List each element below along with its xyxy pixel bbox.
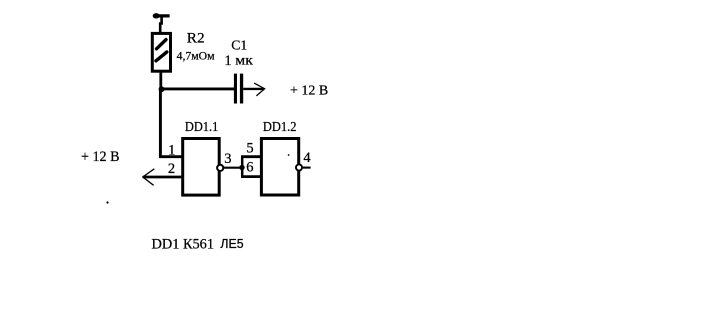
wire into pin 1 of DD1.1 xyxy=(159,155,183,158)
stray dot left xyxy=(106,201,108,203)
arrow head to +12V (left) xyxy=(143,169,155,186)
svg-text:3: 3 xyxy=(224,151,231,167)
svg-text:6: 6 xyxy=(246,159,253,175)
svg-text:C1: C1 xyxy=(231,39,247,54)
wire C1 to +12V (top) xyxy=(243,88,263,90)
svg-text:+ 12 В: + 12 В xyxy=(290,83,328,98)
svg-text:мк: мк xyxy=(235,53,253,68)
svg-text:ЛЕ5: ЛЕ5 xyxy=(220,236,243,251)
wire pin 4 output xyxy=(303,167,311,169)
wire into pin 5 of DD1.2 xyxy=(241,155,262,158)
gate DD1.1 body xyxy=(183,139,220,196)
wire sensor plate to R2 xyxy=(160,17,161,33)
svg-text:4: 4 xyxy=(303,150,311,166)
sensor touch plate E1 xyxy=(153,13,170,18)
svg-text:DD1 К561: DD1 К561 xyxy=(152,236,215,252)
svg-text:4,7мОм: 4,7мОм xyxy=(177,49,216,63)
inversion circle pin 3 of DD1.1 xyxy=(217,165,223,171)
svg-text:+ 12 В: + 12 В xyxy=(81,148,120,165)
gate DD1.2 body xyxy=(261,139,298,196)
capacitor C1 plates xyxy=(234,74,243,104)
wire into pin 6 of DD1.2 xyxy=(241,175,262,178)
wire pin 2 of DD1.1 xyxy=(143,176,183,179)
junction dot between gates xyxy=(239,165,244,170)
wire node A to capacitor C1 xyxy=(161,87,234,90)
label 1 мк xyxy=(224,53,253,69)
svg-text:5: 5 xyxy=(246,141,253,157)
svg-text:1: 1 xyxy=(168,143,175,159)
wire node A down to pin 1 xyxy=(159,89,162,158)
svg-text:2: 2 xyxy=(168,161,175,177)
svg-text:DD1.2: DD1.2 xyxy=(263,120,297,135)
node A junction dot xyxy=(159,86,165,92)
svg-text:1: 1 xyxy=(224,53,232,69)
arrow head to +12V (top) xyxy=(254,83,265,96)
stray dot in DD1.2 xyxy=(288,154,290,156)
wire pin 3 to junction xyxy=(224,167,242,169)
vertical bus wire pins 5-6 xyxy=(241,157,244,177)
resistor R2 body xyxy=(152,33,170,71)
svg-text:R2: R2 xyxy=(187,31,205,47)
inversion circle pin 4 of DD1.2 xyxy=(296,164,302,170)
svg-text:DD1.1: DD1.1 xyxy=(185,120,218,135)
wire R2 to node A xyxy=(159,71,162,90)
resistor R2 slash marks xyxy=(157,40,167,49)
